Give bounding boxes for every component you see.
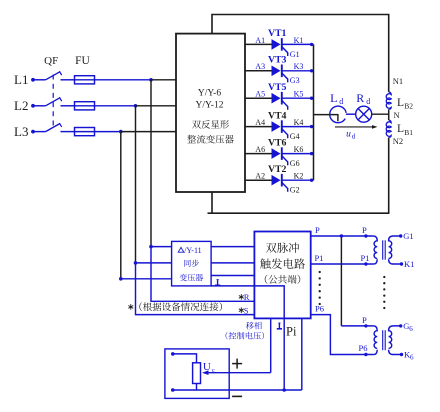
svg-text:K2: K2 <box>294 172 304 181</box>
wire cathode K5 to bus <box>282 97 314 99</box>
wire common from sync <box>211 286 284 390</box>
fuse FU L1 <box>75 76 95 84</box>
svg-text:P1: P1 <box>315 253 324 263</box>
svg-text:VT5: VT5 <box>268 82 287 93</box>
wire cathode K4 to bus <box>282 126 314 128</box>
transformer T1 (double anti-star rectifier transformer) box <box>176 34 245 192</box>
wire L2 to QF <box>35 105 46 107</box>
svg-text:VT2: VT2 <box>268 164 287 175</box>
wire P <box>311 235 374 237</box>
label 公共端 <box>265 275 268 284</box>
junction L1 tap <box>149 78 153 82</box>
wire FU to tap L1 <box>95 79 152 81</box>
junction K2 bus dot <box>310 179 313 182</box>
svg-text:G1: G1 <box>403 231 413 241</box>
svg-text:P: P <box>362 315 367 325</box>
svg-text:d: d <box>366 97 370 106</box>
label minus <box>232 395 242 397</box>
thyristor VT2 cathode bar <box>281 174 283 187</box>
svg-text:L3: L3 <box>14 124 28 139</box>
wire FU to tap L3 <box>95 131 121 133</box>
svg-text:G4: G4 <box>290 132 300 141</box>
svg-text:VT3: VT3 <box>268 55 287 66</box>
svg-text:P6: P6 <box>359 343 368 353</box>
terminal K1 <box>400 262 403 265</box>
junction K4 bus dot <box>310 125 313 128</box>
transformer T2 (sync transformer) box <box>172 241 212 286</box>
svg-text:c: c <box>212 367 215 374</box>
junction sync in 1 <box>149 245 153 249</box>
terminal G1 <box>399 234 402 237</box>
fuse FU L3 <box>75 128 95 136</box>
svg-text:K6: K6 <box>294 145 304 154</box>
inductor LB2 <box>386 92 391 109</box>
breaker QF pole L2 <box>46 98 60 106</box>
svg-text:VT4: VT4 <box>268 110 287 121</box>
thyristor VT1 triangle <box>272 39 281 50</box>
svg-text:QF: QF <box>44 55 58 67</box>
terminal L1 <box>31 78 35 82</box>
svg-text:L1: L1 <box>14 72 28 87</box>
svg-text:K4: K4 <box>294 118 304 127</box>
label 移相 <box>246 322 254 330</box>
wire P1 <box>311 263 374 265</box>
pulse transformer T2 primary <box>373 326 377 348</box>
thyristor VT6 cathode bar <box>281 147 283 160</box>
wire cathode K1 to bus <box>282 43 314 45</box>
wire sync input 2 <box>136 262 172 264</box>
svg-text:P1: P1 <box>361 253 370 263</box>
wire L3 to transformer <box>121 131 176 133</box>
wire anode A2 <box>245 179 272 181</box>
wire Ld to Rd <box>346 113 356 115</box>
wire anode A4 <box>245 126 272 128</box>
wire P to pulse transformer 2 <box>341 325 373 327</box>
note (connect according to equipment) <box>130 304 132 310</box>
svg-text:L: L <box>330 91 337 105</box>
arrow ud <box>335 126 373 128</box>
wire Rd to node N <box>372 113 389 115</box>
svg-text:R: R <box>356 91 364 105</box>
label 双反星形 <box>192 120 201 128</box>
svg-text:B2: B2 <box>404 102 413 111</box>
inductor LB1 <box>386 120 391 137</box>
wire cathode K3 to bus <box>282 70 314 72</box>
breaker QF pole L1 <box>46 72 60 80</box>
junction K3 bus dot <box>310 69 313 72</box>
label 变压器 <box>180 274 187 281</box>
wire tap L1 down <box>150 80 152 247</box>
wire sync input 3 <box>121 278 172 280</box>
primary dots <box>364 234 367 237</box>
ground symbol at sync box <box>217 279 219 285</box>
svg-text:K3: K3 <box>294 62 304 71</box>
pulse transformer T2 core <box>382 330 384 350</box>
svg-text:6: 6 <box>410 354 414 362</box>
wire star neutral 2 (box bottom to N2) <box>208 138 389 214</box>
wire bus to Ld <box>314 114 338 116</box>
svg-text:S: S <box>244 305 249 315</box>
wire S <box>136 263 255 315</box>
svg-text:N: N <box>394 110 400 120</box>
wire P6 <box>311 315 374 355</box>
pulse transformer T2 secondary <box>389 326 401 348</box>
pulse transformer T1 primary <box>373 236 377 258</box>
label 整流变压器 <box>187 135 196 143</box>
label 同步 <box>184 260 191 267</box>
breaker QF linkage (dashed) <box>52 75 54 128</box>
thyristor VT1 gate <box>282 47 288 56</box>
svg-text:FU: FU <box>75 55 90 67</box>
wire sync output 2 <box>211 262 254 264</box>
svg-text:K1: K1 <box>404 259 414 269</box>
junction common/minus <box>282 388 286 392</box>
wire tap L3 down <box>120 132 122 279</box>
thyristor VT3 cathode bar <box>281 65 283 78</box>
svg-text:A3: A3 <box>255 62 265 71</box>
thyristor VT4 cathode bar <box>281 120 283 133</box>
svg-text:A5: A5 <box>255 90 265 99</box>
junction sync in 3 <box>119 277 123 281</box>
junction K1 bus dot <box>310 43 313 46</box>
label + <box>232 363 242 365</box>
svg-text:G3: G3 <box>290 76 300 85</box>
thyristor VT4 gate <box>282 129 288 138</box>
svg-text:d: d <box>339 97 343 106</box>
wire - bottom <box>173 389 302 391</box>
terminal K6 <box>400 353 403 356</box>
control voltage box <box>165 349 229 399</box>
svg-text:N1: N1 <box>393 76 403 86</box>
inductor Ld <box>330 106 346 123</box>
ellipsis transformers <box>383 276 385 278</box>
svg-text:G2: G2 <box>290 186 300 195</box>
wire tap L2 down <box>135 106 137 263</box>
wire R <box>151 247 254 302</box>
svg-text:K5: K5 <box>294 90 304 99</box>
wire reactor center tap <box>388 110 390 121</box>
junction K5 bus dot <box>310 97 313 100</box>
thyristor VT2 gate <box>282 182 288 191</box>
ellipsis P2-P5 <box>319 271 321 273</box>
thyristor VT5 gate <box>282 100 288 109</box>
thyristor VT1 cathode bar <box>281 38 283 51</box>
svg-text:Pi: Pi <box>286 325 297 339</box>
wire sync output 3 <box>211 275 254 277</box>
svg-text:G1: G1 <box>290 50 300 59</box>
svg-text:/Y-11: /Y-11 <box>184 246 201 255</box>
svg-text:N2: N2 <box>393 136 403 146</box>
svg-text:6: 6 <box>409 325 413 333</box>
terminal top <box>171 352 175 356</box>
pulse transformer T1 core <box>382 240 384 259</box>
wire QF to FU L3 <box>61 131 75 133</box>
wire cathode K2 to bus <box>282 179 314 181</box>
wire Pi <box>301 318 303 390</box>
wire pot bottom <box>196 384 198 391</box>
junction K6 bus dot <box>310 152 313 155</box>
wire FU to tap L2 <box>95 105 136 107</box>
terminal L2 <box>31 104 35 108</box>
svg-text:L: L <box>397 123 404 135</box>
svg-text:A4: A4 <box>255 118 265 127</box>
wire L1 to QF <box>35 79 46 81</box>
svg-text:U: U <box>203 361 211 373</box>
svg-text:A6: A6 <box>255 145 265 154</box>
svg-text:L: L <box>397 97 404 109</box>
wire sync output 1 <box>211 246 254 248</box>
wire anode A3 <box>245 70 272 72</box>
wire anode A1 <box>245 43 272 45</box>
thyristor VT5 triangle <box>272 93 281 104</box>
svg-text:A2: A2 <box>255 172 265 181</box>
wire wiper + <box>205 372 271 374</box>
pulse transformer T1 secondary <box>389 236 401 258</box>
wire pot top <box>173 354 197 363</box>
cathode bus <box>313 44 315 180</box>
thyristor VT6 gate <box>282 156 288 165</box>
wire anode A6 <box>245 153 272 155</box>
trigger circuit box <box>254 232 310 319</box>
thyristor VT4 triangle <box>272 121 281 132</box>
label triangle/Y-11 <box>178 247 184 252</box>
terminal L3 <box>31 130 35 134</box>
wire cathode K6 to bus <box>282 153 314 155</box>
svg-text:VT1: VT1 <box>268 28 287 39</box>
wire L2 to transformer <box>136 105 177 107</box>
svg-text:A1: A1 <box>255 36 265 45</box>
junction L2 tap <box>134 104 138 108</box>
fuse FU L2 <box>75 102 95 110</box>
resistor Rd (lamp symbol) <box>356 106 372 122</box>
svg-text:Y/Y-12: Y/Y-12 <box>196 100 224 110</box>
svg-text:R: R <box>244 292 250 302</box>
junction P <box>340 234 343 237</box>
svg-text:B1: B1 <box>404 128 413 137</box>
thyristor VT2 triangle <box>272 175 281 186</box>
wire anode A5 <box>245 97 272 99</box>
breaker QF pole L3 <box>46 124 60 132</box>
junction sync in 2 <box>134 261 138 265</box>
potentiometer Uc <box>193 363 201 384</box>
svg-text:K1: K1 <box>294 36 304 45</box>
label 触发电路 <box>260 258 271 268</box>
svg-text:L2: L2 <box>14 98 28 113</box>
wire L3 to QF <box>35 131 46 133</box>
svg-text:u: u <box>346 130 351 140</box>
thyristor VT5 cathode bar <box>281 92 283 105</box>
svg-text:G6: G6 <box>290 159 300 168</box>
terminal G6 <box>399 324 402 327</box>
wire QF to FU L1 <box>61 79 75 81</box>
label *R <box>240 294 242 300</box>
svg-text:P: P <box>362 225 367 235</box>
terminal bottom <box>171 388 175 392</box>
wire L1 to transformer <box>151 79 176 81</box>
label 控制电压 <box>226 332 228 340</box>
wire QF to FU L2 <box>61 105 75 107</box>
svg-text:Y/Y-6: Y/Y-6 <box>198 88 221 98</box>
primary dots <box>364 324 367 327</box>
ground symbol at Pi <box>278 323 280 329</box>
junction L3 tap <box>119 130 123 134</box>
label 双脉冲 <box>266 243 277 253</box>
thyristor VT3 triangle <box>272 66 281 77</box>
wire P down (black) <box>340 236 342 326</box>
label *S <box>240 307 242 313</box>
wire sync input 1 <box>151 246 172 248</box>
svg-text:P: P <box>315 225 320 235</box>
wire + control <box>270 318 272 372</box>
wire star neutral 1 (box top to N1) <box>212 15 389 92</box>
svg-text:VT6: VT6 <box>268 137 287 148</box>
thyristor VT6 triangle <box>272 148 281 159</box>
svg-text:d: d <box>352 133 356 141</box>
thyristor VT3 gate <box>282 73 288 82</box>
